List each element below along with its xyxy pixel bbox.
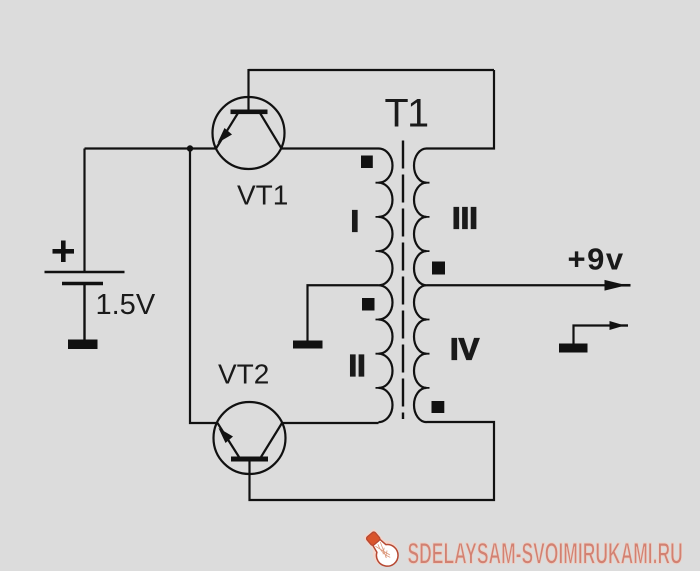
svg-text:I: I — [351, 204, 360, 239]
svg-text:III: III — [452, 201, 478, 236]
svg-text:SDELAYSAM-SVOIMIRUKAMI.RU: SDELAYSAM-SVOIMIRUKAMI.RU — [408, 538, 683, 571]
winding cusp ticks right — [426, 183, 430, 388]
ground output — [559, 344, 588, 353]
label battery plus — [53, 241, 75, 263]
wire VT1 base lead — [247, 69, 249, 110]
wire center tap left to ground — [308, 285, 379, 341]
svg-text:+9v: +9v — [568, 242, 625, 277]
polarity dot winding III — [432, 262, 445, 275]
wire junction down to VT2 — [190, 149, 218, 424]
svg-text:IV: IV — [450, 332, 480, 367]
svg-text:VT2: VT2 — [218, 359, 269, 390]
svg-text:1.5V: 1.5V — [96, 289, 156, 321]
watermark text sdelaysam-svoimirukami.ru — [408, 538, 683, 571]
winding cusp ticks left — [376, 183, 380, 388]
polarity dot winding IV — [432, 401, 445, 413]
transistor VT1 — [213, 97, 285, 169]
wire top: VT1 base to right rail — [249, 69, 495, 71]
winding I and winding II (left column) — [379, 149, 393, 423]
wire VT2 collector to winding II — [282, 422, 379, 424]
polarity dot winding I — [361, 156, 373, 169]
svg-text:II: II — [349, 348, 366, 383]
wire battery plus to VT1 emitter — [85, 147, 217, 149]
wire return arrow from ground — [574, 326, 612, 345]
wire right rail top — [427, 70, 495, 149]
arrow return — [610, 321, 625, 330]
wire VT1 collector to winding I — [282, 147, 379, 149]
svg-text:T1: T1 — [385, 92, 429, 136]
winding III and winding IV (right column) — [414, 149, 427, 423]
wire output +9v — [427, 284, 607, 286]
polarity dot winding II — [362, 298, 375, 311]
battery GB1 — [45, 149, 125, 341]
arrow output +9v — [605, 280, 627, 291]
ground battery — [68, 340, 98, 350]
transformer T1 core — [402, 141, 404, 420]
watermark bulb icon — [362, 528, 403, 571]
wire VT2 base lead bottom to right rail — [250, 422, 495, 500]
node junction dot — [187, 145, 193, 151]
svg-text:VT1: VT1 — [237, 180, 288, 211]
transistor VT2 — [214, 402, 286, 474]
ground center tap — [293, 341, 323, 349]
